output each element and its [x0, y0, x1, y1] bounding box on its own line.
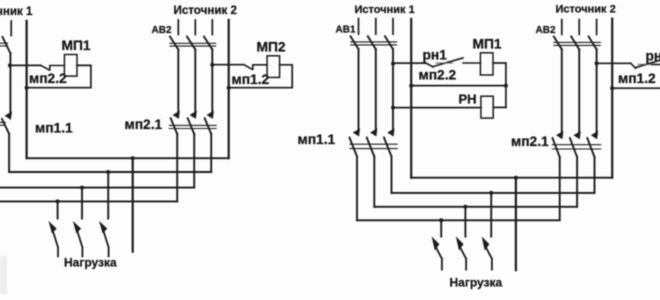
node load N tap left	[131, 156, 135, 160]
svg-text:АВ2: АВ2	[536, 25, 556, 36]
contactor мп1.1 linkage bar right	[350, 144, 397, 148]
wire to contact рн1	[393, 62, 426, 64]
bus N right (y=177.7)	[411, 177, 612, 179]
coil МП2 (left diagram)	[267, 56, 280, 78]
label мп2.2 left	[29, 71, 67, 86]
svg-text:МП1: МП1	[473, 37, 502, 52]
node load tap 1 right	[439, 218, 443, 222]
wire РН return	[493, 106, 506, 108]
label АВ2 left diagram	[152, 25, 172, 36]
svg-text:Нагрузка: Нагрузка	[64, 256, 117, 270]
node load tap 2 left	[80, 186, 84, 190]
svg-text:АВ1: АВ1	[336, 24, 356, 35]
contactor мп2.1 linkage bar left	[169, 125, 216, 128]
label Источник 1 (left diagram, clipped at left edge)	[0, 5, 33, 18]
wires АВ2 outputs left	[178, 50, 212, 114]
node N tap right source2	[610, 86, 614, 90]
wire N tap to coil return right	[411, 85, 506, 87]
wires АВ2 outputs right	[562, 49, 597, 133]
svg-text:МП2: МП2	[257, 40, 286, 55]
node N tap right source1	[409, 84, 413, 88]
phase leads source2 right	[562, 20, 597, 35]
wire coil МП2 return loop	[229, 65, 293, 88]
wires мп2.1 outputs left	[177, 134, 211, 201]
bus phase B left (y=187.6)	[0, 187, 194, 189]
wire N source1 right	[410, 19, 412, 178]
wire load N drop right	[515, 178, 517, 271]
label МП1 right	[473, 37, 502, 52]
label РН	[459, 92, 477, 107]
bus phase B right (y=206.8)	[374, 206, 577, 208]
wire N source2 left	[228, 20, 230, 158]
svg-text:мп1.1: мп1.1	[35, 121, 73, 136]
breaker АВ1 linkage bar right	[351, 42, 397, 45]
label АВ2 right diagram	[536, 25, 556, 36]
breaker АВ2 blades right	[554, 37, 597, 50]
svg-text:МП1: МП1	[62, 38, 91, 53]
label мп2.2 right	[419, 68, 457, 83]
svg-text:Источник 1: Источник 1	[355, 4, 415, 16]
load switch 1 left	[50, 224, 58, 257]
wire мп1.1 pole3 output	[8, 134, 10, 172]
label мп1.1 left	[35, 121, 73, 136]
bus phase C left (y=172)	[9, 171, 211, 173]
wire coil МП1 right side down	[493, 63, 506, 107]
contactor мп2.1 blades left	[171, 118, 212, 134]
label мп2.1 right	[511, 134, 549, 149]
wire N source2 right	[611, 19, 613, 178]
wire РН branch	[393, 107, 481, 109]
label МП2 left	[257, 40, 286, 55]
node load tap 3 right	[489, 191, 493, 195]
wire N source1 left	[26, 21, 28, 158]
contactor мп1.1 fixed contact chevrons right	[354, 130, 393, 135]
contactor мп1.1 pole3 fixed contact chevron	[6, 113, 11, 118]
breaker AB1 linkage bar stub	[0, 43, 8, 46]
faint scan smudge bottom-left	[0, 256, 7, 294]
svg-text:Источник 2: Источник 2	[556, 4, 616, 16]
contact мп1.2 (NC blade)	[244, 65, 267, 70]
node load tap 2 right	[463, 205, 467, 209]
wire AB1 pole3 output	[9, 53, 11, 114]
label рн2 (clipped)	[646, 48, 660, 63]
wire to contact mp2.2	[10, 64, 41, 66]
wire load drops left	[58, 172, 109, 219]
breaker АВ2 linkage bar	[170, 43, 216, 46]
load switch 3 right	[483, 239, 492, 269]
bus phase A right (y=220.3)	[357, 219, 560, 221]
wires мп2.1 outputs right	[560, 157, 595, 220]
node load tap 1 left	[56, 199, 60, 203]
wires АВ1 outputs right	[359, 49, 394, 130]
node tap pole3 to MP1 coil circuit	[8, 63, 12, 67]
breaker АВ2 blades left	[170, 37, 212, 50]
label Источник 2 right diagram	[556, 4, 616, 16]
svg-text:Источник 2: Источник 2	[174, 4, 237, 17]
svg-text:РН: РН	[459, 92, 477, 107]
breaker АВ1 blades right	[351, 36, 394, 49]
bus phase A left (y=201.4)	[0, 200, 177, 202]
svg-text:мп1.2: мп1.2	[232, 72, 270, 87]
node load tap 3 left	[106, 170, 110, 174]
wire to contact рн2 (cut at edge)	[597, 62, 631, 64]
phase leads source2 left	[178, 20, 212, 35]
wire load drops right	[441, 193, 491, 237]
svg-text:мп2.1: мп2.1	[125, 117, 163, 132]
label мп1.1 right	[298, 132, 336, 147]
contactor мп1.1 pole3 blade	[2, 119, 9, 134]
load switch 3 left	[101, 224, 109, 257]
svg-text:рн1: рн1	[423, 48, 448, 63]
node tap pole3 source2 to МП2 circuit right	[595, 61, 599, 65]
wire to contact мп1.2	[212, 64, 244, 66]
wire load N drop left	[132, 158, 134, 252]
contactor мп2.1 blades right	[553, 138, 595, 157]
node N junction right	[504, 84, 508, 88]
contact рн1 / мп2.2 (blade) right	[426, 58, 481, 67]
coil МП1 (right diagram)	[480, 53, 493, 75]
node tap pole3 to РН circuit right	[391, 106, 395, 110]
breaker AB1 pole3 blade (left diagram, partially cut)	[3, 37, 11, 54]
node return to N bus left source2	[227, 86, 231, 90]
svg-text:рн2: рн2	[646, 48, 660, 63]
contactor мп2.1 linkage bar right	[552, 145, 600, 149]
label мп1.2 left	[232, 72, 270, 87]
label мп1.2 right (clipped)	[618, 71, 656, 86]
label мп2.1 left	[125, 117, 163, 132]
bus phase C right (y=192.9)	[392, 192, 595, 194]
coil МП1 (left diagram)	[64, 55, 77, 77]
wire coil МП1 return loop	[27, 65, 91, 87]
load switch 1 right	[433, 239, 442, 269]
label Источник 2 left diagram	[174, 4, 237, 17]
node tap pole3 source2 to МП2 circuit	[210, 63, 214, 67]
label Нагрузка right	[450, 276, 503, 290]
svg-text:Источник 1: Источник 1	[0, 5, 33, 18]
svg-text:мп1.1: мп1.1	[298, 132, 336, 147]
svg-text:мп2.2: мп2.2	[419, 68, 457, 83]
wire N tap to edge	[612, 87, 660, 89]
contactor мп2.1 fixed contact chevrons left	[174, 112, 213, 117]
svg-text:мп1.2: мп1.2	[618, 71, 656, 86]
node return to N bus left source1	[25, 86, 29, 90]
bus N left (y=158)	[27, 157, 229, 159]
svg-text:мп2.2: мп2.2	[29, 71, 67, 86]
phase lead L3 source1 left	[10, 21, 12, 36]
svg-text:мп2.1: мп2.1	[511, 134, 549, 149]
contactor мп2.1 fixed contact chevrons right	[558, 133, 597, 138]
load switch 2 right	[457, 239, 466, 269]
breaker АВ2 linkage bar right	[554, 42, 600, 45]
node tap pole3 to МП1 circuit right	[391, 62, 395, 66]
label Источник 1 right diagram	[355, 4, 415, 16]
label Нагрузка left	[64, 256, 117, 270]
wires мп1.1 outputs right	[357, 157, 392, 221]
load switch 2 left	[75, 224, 83, 257]
contact мп2.2 (NC blade)	[41, 65, 65, 70]
coil РН (voltage relay)	[481, 96, 493, 118]
label АВ1 right diagram	[336, 24, 356, 35]
contact рн2 blade (cut at edge)	[631, 60, 660, 68]
node load N tap right	[514, 176, 518, 180]
contactor мп1.1 linkage bar stub	[0, 122, 5, 125]
label рн1	[423, 48, 448, 63]
phase leads source1 right	[359, 19, 394, 35]
svg-text:АВ2: АВ2	[152, 25, 172, 36]
contactor мп1.1 blades right	[350, 138, 392, 157]
svg-text:Нагрузка: Нагрузка	[450, 276, 503, 290]
label МП1 left	[62, 38, 91, 53]
